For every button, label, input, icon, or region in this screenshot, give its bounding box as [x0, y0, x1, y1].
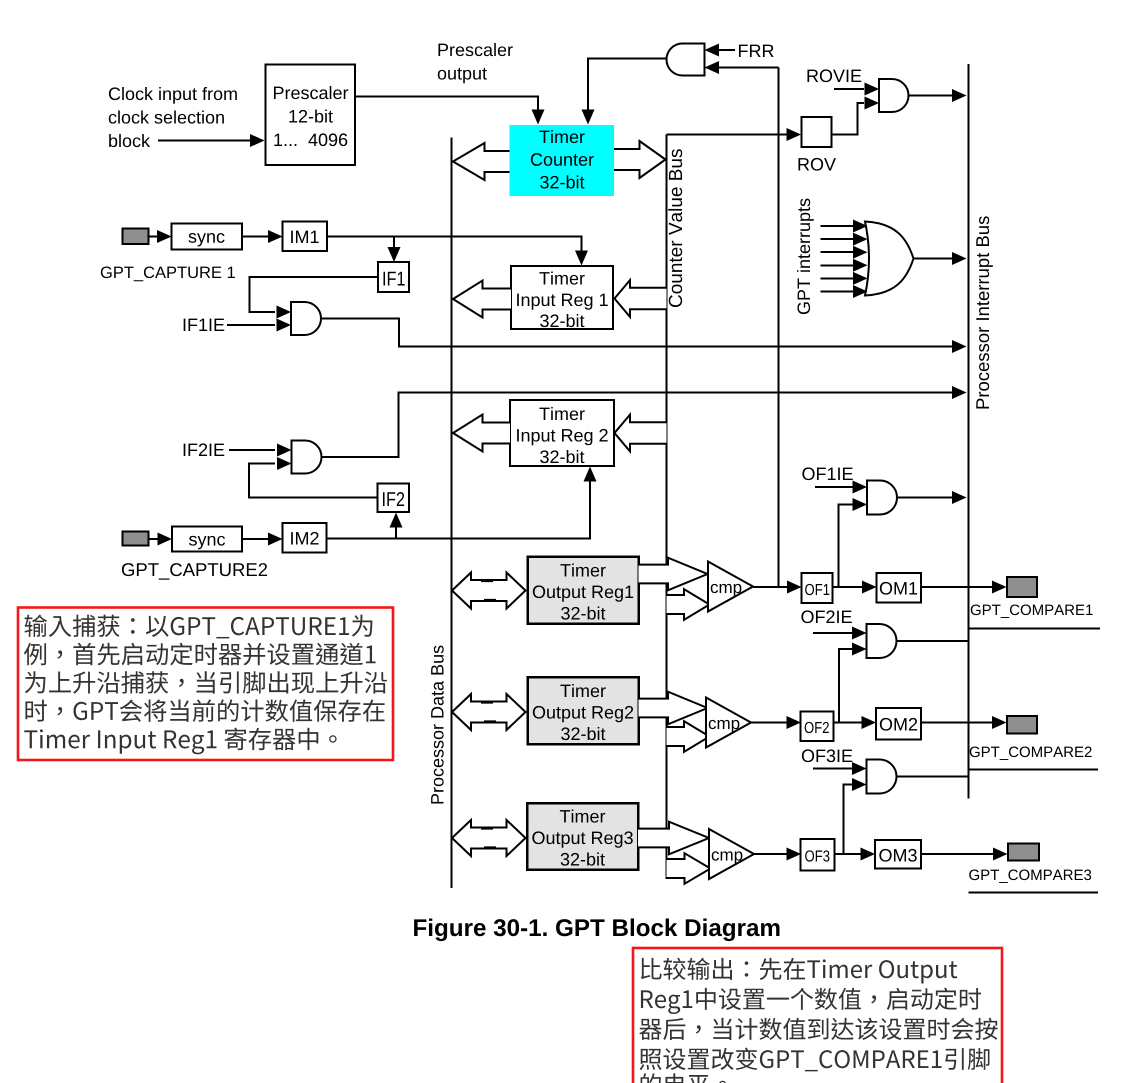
pin line GPT_COMPARE1	[969, 628, 1101, 630]
OF1IE label	[802, 467, 852, 480]
wire IF2 gate to Processor Interrupt Bus	[321, 393, 952, 458]
block IF2	[378, 484, 410, 513]
GPT_COMPARE3 label	[969, 870, 1091, 883]
block sync2	[172, 527, 242, 552]
wire FRR gate output to Timer Counter top	[588, 59, 667, 111]
wire OF1IE gate to interrupt bus	[897, 497, 952, 499]
block OF1	[802, 573, 833, 603]
pad GPT_CAPTURE 1 (gray)	[123, 229, 149, 245]
wire IF2 to gate input 2	[249, 464, 378, 498]
block IF1	[378, 262, 409, 292]
Prescaler output label	[438, 43, 512, 56]
block ROV	[802, 117, 832, 147]
block IM1	[283, 222, 328, 252]
hollow arrow Timer Output Reg1 to cmp	[639, 558, 708, 591]
wire counter feedback vertical	[778, 68, 780, 588]
block sync1	[172, 224, 243, 250]
and-gate IF2IE	[292, 441, 322, 474]
wire OF1 up to OF1IE gate input 2	[839, 505, 853, 588]
double hollow arrow data bus / Timer Output Reg2	[452, 694, 526, 730]
wire IF2IE input 1	[229, 449, 275, 451]
hollow arrow Counter Value Bus to cmp (row1)	[667, 589, 710, 620]
and-gate OF1IE	[867, 481, 897, 515]
wires OR gate inputs	[821, 225, 854, 227]
block Timer Output Reg1 (gray)	[528, 557, 639, 624]
clock input label	[109, 87, 237, 104]
block OM2	[876, 708, 921, 740]
wire Prescaler output to Timer Counter	[355, 97, 538, 111]
wire cmp1 to OF1	[753, 586, 787, 588]
block Timer Counter 32-bit (cyan)	[510, 125, 615, 196]
pad GPT_COMPARE1 (gray)	[1007, 577, 1037, 597]
block Timer Output Reg3 (gray)	[527, 803, 638, 870]
wire cmp2 to OF2	[751, 722, 787, 724]
wire ROVIE gate to interrupt bus	[909, 95, 953, 97]
pad GPT_COMPARE3 (gray)	[1008, 844, 1039, 861]
red box2 chinese text	[639, 958, 997, 1083]
Processor Interrupt Bus (vertical line)	[968, 64, 970, 799]
hollow arrow Counter Value Bus to Timer Input Reg 1	[615, 280, 667, 317]
wire clock input to Prescaler	[158, 140, 251, 142]
pin line GPT_COMPARE2	[969, 769, 1099, 771]
figure caption	[414, 918, 779, 941]
comparator cmp1	[708, 562, 753, 612]
wire OF2IE gate to interrupt bus	[897, 640, 969, 642]
and-gate FRR (points left)	[667, 44, 705, 76]
hollow arrow Timer Output Reg2 to cmp2	[639, 692, 708, 725]
wire branch up to IF2	[395, 527, 397, 539]
double hollow arrow data bus / Timer Output Reg3	[452, 820, 526, 856]
block Prescaler	[266, 65, 356, 166]
wire OF3 to OM3	[835, 853, 861, 855]
wire branch down to IF1	[393, 237, 395, 248]
wire ROV to ROVIE gate	[832, 103, 865, 135]
wire OF3IE input 1	[813, 768, 852, 770]
hollow arrow Timer Counter to Counter Value Bus	[614, 141, 666, 178]
comparator cmp2	[706, 698, 751, 748]
hollow arrow Timer Output Reg3 to cmp3	[638, 822, 709, 855]
wire OF1 to OM1	[833, 586, 863, 588]
wire FRR input 2 from counter line	[718, 67, 779, 69]
GPT_CAPTURE2 label	[122, 563, 267, 580]
wire OM1 to GPT_COMPARE1 pad	[921, 586, 992, 588]
hollow arrow Counter Value Bus to cmp2	[667, 721, 710, 752]
block IM2	[283, 523, 327, 553]
wire sync1 to IM1	[242, 236, 268, 238]
FRR label	[739, 45, 774, 57]
hollow arrow Timer Input Reg 2 to data bus	[453, 415, 510, 452]
pin line GPT_COMPARE3	[969, 892, 1099, 894]
Processor Data Bus (vertical line)	[451, 138, 453, 889]
GPT_COMPARE2 label	[970, 747, 1092, 760]
block OF2	[801, 712, 834, 742]
wire IF1 to and-gate input 1	[250, 277, 379, 312]
wire OF2IE input 1	[813, 632, 852, 634]
wire FRR input 1	[718, 49, 735, 51]
wire Counter Value Bus to ROV	[667, 134, 788, 136]
block OM1	[877, 573, 922, 603]
wire OF3IE gate to interrupt bus	[897, 776, 969, 778]
wire OR gate output to interrupt bus	[914, 258, 953, 260]
OF2IE label	[801, 610, 851, 623]
wire pad to sync2	[149, 538, 158, 540]
pad GPT_CAPTURE2 (gray)	[123, 532, 149, 546]
OF3IE label	[802, 749, 852, 762]
and-gate OF3IE	[867, 760, 897, 794]
red box1 chinese text	[24, 615, 387, 755]
IF1IE label	[184, 319, 225, 331]
wire OM2 to GPT_COMPARE2 pad	[921, 722, 992, 724]
hollow arrow Timer Counter to Processor Data Bus	[453, 143, 510, 180]
hollow arrow Timer Input Reg 1 to data bus	[453, 281, 511, 318]
wire OF3 up to OF3IE gate input 2	[844, 785, 853, 855]
red annotation box 2	[633, 948, 1002, 1083]
ROVIE label	[807, 69, 861, 82]
and-gate IF1IE	[291, 302, 321, 335]
block Timer Input Reg 1	[511, 266, 613, 329]
Processor Data Bus label	[431, 646, 444, 804]
GPT_COMPARE1 label	[971, 605, 1093, 618]
wire OF2 to OM2	[834, 722, 862, 724]
red annotation box 1	[18, 608, 393, 761]
hollow arrow Counter Value Bus to cmp3	[667, 853, 711, 884]
Counter Value Bus (vertical line)	[666, 135, 668, 880]
ROV label	[798, 158, 835, 171]
and-gate ROVIE	[879, 79, 909, 112]
block OM3	[875, 840, 921, 869]
wire IM1 to Timer Input Reg 1	[327, 237, 582, 252]
wire OF1IE input 1	[815, 486, 853, 488]
Counter Value Bus label	[668, 149, 682, 307]
wire IF1IE input 2	[227, 324, 275, 326]
wire ROVIE input	[834, 88, 864, 90]
Processor Interrupt Bus label	[976, 216, 993, 408]
wire sync2 to IM2	[242, 538, 268, 540]
double hollow arrow data bus / Timer Output Reg1	[452, 573, 526, 609]
or-gate GPT interrupts	[865, 222, 914, 296]
GPT interrupts label	[797, 199, 814, 314]
wire IF1 gate to Processor Interrupt Bus	[321, 319, 953, 347]
block Timer Input Reg 2	[510, 400, 614, 466]
wire pad to sync1	[149, 236, 158, 238]
GPT_CAPTURE 1 label	[101, 266, 235, 281]
and-gate OF2IE	[867, 624, 897, 658]
IF2IE label	[184, 443, 225, 456]
hollow arrow Counter Value Bus to Timer Input Reg 2	[615, 415, 667, 452]
pad GPT_COMPARE2 (gray)	[1007, 716, 1037, 734]
wire cmp3 to OF3	[754, 853, 787, 855]
block Timer Output Reg2 (gray)	[528, 677, 639, 744]
wire IM2 to Timer Input Reg 2 bottom	[327, 481, 591, 539]
comparator cmp3	[709, 829, 754, 879]
wire OM3 to GPT_COMPARE3 pad	[921, 853, 993, 855]
wire OF2 up to OF2IE gate input 2	[839, 649, 852, 723]
block OF3	[801, 839, 835, 871]
